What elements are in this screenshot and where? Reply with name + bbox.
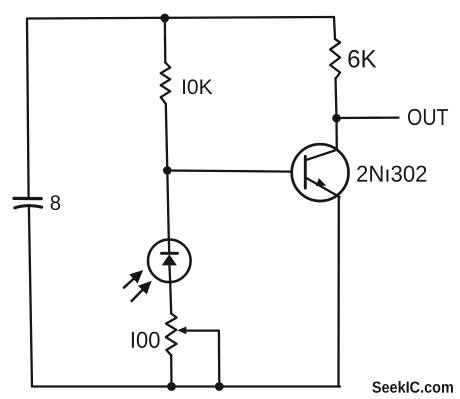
- light arrow lower: [131, 283, 150, 302]
- wire pot to bottom rail: [170, 355, 173, 386]
- wire 6K top: [334, 17, 335, 39]
- wire base from middle branch to transistor: [167, 171, 291, 172]
- svg-text:2Nı302: 2Nı302: [356, 161, 428, 187]
- wire collector vertical to OUT node: [335, 118, 338, 150]
- wire 6K to OUT node: [336, 78, 337, 118]
- wire emitter vertical: [337, 197, 340, 387]
- transistor emitter diagonal: [306, 178, 340, 198]
- junction dot base node: [163, 166, 172, 175]
- wire bottom rail: [32, 385, 340, 387]
- wire OUT lead: [337, 116, 399, 119]
- svg-text:SeekIC.com: SeekIC.com: [372, 380, 454, 397]
- photodiode triangle: [162, 254, 177, 265]
- capacitor C1 top plate: [14, 197, 41, 200]
- wire left branch upper: [27, 19, 29, 199]
- photodiode cathode wire inside: [168, 241, 171, 253]
- potentiometer 100 zigzag: [166, 314, 177, 356]
- transistor base bar: [304, 156, 307, 188]
- svg-text:I0K: I0K: [181, 76, 213, 99]
- junction dot OUT node: [332, 114, 341, 123]
- junction dot top rail / 10K: [160, 14, 169, 23]
- photodiode anode wire inside: [168, 265, 171, 282]
- wire wiper drop to bottom rail: [218, 331, 221, 387]
- wire photodiode to pot: [170, 282, 171, 314]
- junction dot bottom rail pot: [167, 382, 176, 391]
- svg-text:6K: 6K: [347, 45, 377, 73]
- resistor 10K zigzag: [161, 63, 171, 104]
- capacitor C1 bottom curved plate: [15, 206, 42, 208]
- pot wiper arrowhead: [177, 327, 186, 335]
- transistor emitter arrowhead: [316, 178, 326, 186]
- photodiode D1 circle: [148, 239, 191, 282]
- transistor collector diagonal: [306, 150, 337, 160]
- svg-text:8: 8: [50, 192, 61, 215]
- wire pot wiper horizontal: [185, 329, 219, 331]
- junction dot bottom rail wiper: [215, 382, 224, 391]
- photodiode cathode bar: [162, 252, 178, 255]
- wire middle branch to photodiode: [167, 170, 169, 239]
- wire top rail: [27, 17, 334, 19]
- wire middle branch top: [164, 18, 167, 63]
- resistor 6K zigzag: [330, 39, 340, 79]
- light arrow upper: [123, 272, 141, 288]
- wire middle branch mid: [166, 104, 168, 171]
- wire left branch lower: [29, 207, 32, 387]
- transistor Q1 circle: [292, 144, 349, 201]
- svg-text:I00: I00: [130, 327, 161, 353]
- svg-text:OUT: OUT: [407, 104, 449, 130]
